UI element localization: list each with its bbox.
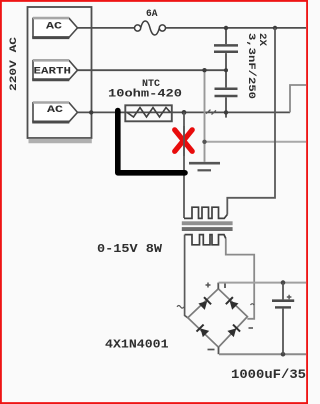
transformer T1 primary: [184, 207, 227, 218]
earth branch wire: [204, 70, 206, 142]
wire L from AC to fuse: [78, 27, 135, 29]
cap2 stub below junction: [225, 112, 227, 117]
electrolytic capacitor C3: [272, 283, 294, 355]
connector EARTH: [32, 60, 77, 80]
svg-text:AC: AC: [47, 105, 63, 116]
node: cap+: [281, 280, 286, 285]
earth wire to right edge: [205, 141, 307, 143]
box bottom shadow: [29, 139, 92, 143]
wire N: [77, 111, 290, 113]
connector box: [28, 7, 92, 138]
capacitor C2 (Y-cap bottom): [215, 70, 238, 112]
transformer core: [182, 221, 233, 225]
node: primary feed tap: [273, 26, 277, 30]
svg-text:3,3nF/250: 3,3nF/250: [245, 33, 257, 99]
plus sign: [287, 295, 292, 300]
bridge bottom stub: [218, 347, 220, 354]
primary feed wire: [227, 28, 275, 215]
transformer secondary: [185, 235, 226, 245]
thick added wire (mod): [118, 111, 185, 173]
svg-text:EARTH: EARTH: [34, 67, 72, 78]
svg-text:6A: 6A: [146, 9, 158, 20]
wire L from fuse to right edge: [166, 27, 306, 29]
wire crossover ticks: [206, 110, 216, 115]
ground symbol: [189, 142, 220, 171]
NTC zigzag: [127, 108, 171, 118]
wire EARTH: [77, 69, 226, 71]
diode D1 upper-left: [198, 297, 211, 310]
capacitor C1 (Y-cap top): [214, 28, 238, 69]
connector AC top: [32, 18, 77, 37]
wire N step to right edge: [290, 85, 306, 112]
node: NTC out: [182, 110, 187, 115]
DC+ wire: [219, 282, 306, 284]
node: box edge crossing: [89, 110, 93, 114]
DC- wire: [219, 353, 306, 355]
svg-text:0-15V 8W: 0-15V 8W: [97, 242, 163, 256]
node: cap1 top: [224, 26, 228, 30]
bridge minus mark: [208, 349, 215, 351]
bridge AC tilde mark right: [251, 304, 255, 305]
node: cap-: [281, 352, 286, 357]
label 2X 3,3nF/250: [245, 33, 268, 99]
bridge plus mark: [206, 283, 211, 288]
bridge top stub: [217, 283, 219, 289]
fuse F1: [135, 21, 166, 35]
diode D2 upper-right: [226, 297, 239, 310]
bridge rectifier edges: [188, 289, 248, 347]
bridge pin 1 mark: [224, 284, 226, 289]
svg-text:1000uF/35: 1000uF/35: [231, 367, 306, 382]
connector AC bottom: [32, 103, 77, 123]
secondary left wire to bridge: [185, 235, 188, 318]
node: cap2 bottom: [224, 110, 228, 114]
diode D4 lower-right: [227, 325, 240, 338]
node: earth to ground: [202, 140, 206, 144]
NTC out to primary left wire: [183, 112, 185, 218]
red X mark: [175, 130, 193, 152]
NTC box: [125, 105, 172, 121]
svg-text:10ohm-420: 10ohm-420: [108, 89, 182, 101]
secondary right wire to bridge: [226, 239, 254, 319]
node: caps mid: [224, 68, 228, 72]
bridge pin 2 mark: [249, 327, 254, 329]
wire over X: [183, 126, 185, 156]
diode D3 lower-left: [197, 325, 210, 338]
svg-text:220V AC: 220V AC: [9, 37, 20, 91]
bridge AC tilde mark left: [177, 306, 184, 309]
node: earth branch: [202, 68, 206, 72]
svg-text:AC: AC: [46, 22, 62, 33]
svg-text:4X1N4001: 4X1N4001: [105, 338, 169, 352]
